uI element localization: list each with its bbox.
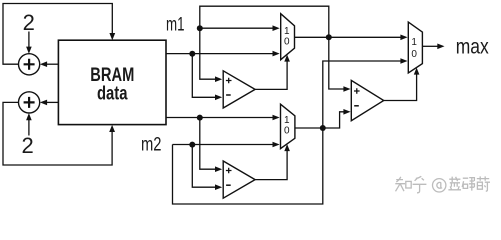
wire: mux1 output node down to comparator CMP3 + input [329, 37, 344, 89]
wire: BRAM lower word down to comparator CMP2 + input [200, 118, 216, 170]
svg-text:2: 2 [23, 10, 35, 35]
wire: m2 down to comparator CMP2 - input [192, 145, 215, 188]
arrowhead into MUX1 select [284, 55, 290, 62]
arrowhead into adder A2 right [40, 100, 47, 106]
BRAM data block U1 [58, 40, 166, 124]
wire: BRAM left edge to adder A1 input [47, 63, 59, 65]
wire: m2 bottom bypass (down, across, up to mux2 output node) [173, 128, 323, 204]
arrowhead into CMP2 + input [215, 166, 222, 172]
arrowhead into MUX1 input 0 [273, 51, 280, 57]
svg-text:0: 0 [411, 49, 417, 60]
wire: m2 to MUX2 input 0 [173, 144, 273, 146]
wire: MUX1 output to final MUX input 1 [295, 36, 401, 38]
svg-text:m1: m1 [166, 14, 185, 35]
arrowhead into CMP2 - input [215, 184, 222, 190]
arrowhead output max [437, 44, 444, 50]
svg-text:data: data [97, 83, 128, 104]
wire: CMP3 output to final MUX select [384, 74, 417, 101]
node: mux2 output junction [320, 125, 326, 131]
adder A2 [19, 92, 40, 113]
node: BRAM lower word junction [197, 115, 203, 121]
node: BRAM upper word junction [189, 51, 195, 57]
arrowhead into BRAM bottom [109, 125, 115, 132]
wire: MUX2 output to comparator CMP3 - input (step route) [295, 112, 344, 128]
svg-text:1: 1 [411, 37, 417, 48]
wire: adder A2 output feedback loop to BRAM address bottom [3, 102, 112, 165]
wire: constant 2 into adder A2 [28, 120, 30, 136]
wire: BRAM left edge to adder A2 input [47, 101, 59, 103]
arrowhead into CMP1 + input [215, 76, 222, 82]
wire: m1 down to comparator CMP1 + input [200, 28, 216, 79]
arrowhead into MUX2 input 0 [273, 142, 280, 148]
arrowhead into adder A2 bottom [26, 113, 32, 120]
wire: final MUX output [422, 45, 437, 47]
wire: BRAM upper word output to MUX1 input 0 [166, 53, 273, 55]
svg-text:max: max [456, 35, 489, 58]
adder A1 [19, 54, 40, 75]
node: m1 junction [197, 25, 203, 31]
svg-text:0: 0 [284, 126, 290, 137]
arrowhead into BRAM top [109, 33, 115, 40]
arrowhead into final MUX input 0 [400, 58, 407, 64]
arrowhead into CMP3 - input [343, 109, 350, 115]
node: mux1 output junction [326, 34, 332, 40]
wire: m1 net top bypass (up, over, down to mux1 output node) [200, 6, 329, 37]
wire: CMP1 output to MUX1 select [255, 61, 287, 90]
svg-text:m2: m2 [141, 135, 162, 156]
arrowhead into adder A1 right [40, 61, 47, 67]
node: m2 junction [189, 142, 195, 148]
arrowhead into MUX2 select [284, 144, 290, 151]
arrowhead into adder A1 top [26, 47, 32, 54]
arrowhead into final MUX input 1 [400, 35, 407, 41]
svg-text:1: 1 [284, 26, 290, 37]
wire: constant 2 into adder A1 [28, 32, 30, 48]
watermark: 知乎 @... (grey) [395, 176, 490, 193]
wire: mux2 output node up to final MUX input 0 [323, 61, 401, 128]
arrowhead into final MUX select [414, 68, 420, 75]
mux MUX3 (final) [408, 22, 422, 73]
wire: CMP2 output to MUX2 select [255, 150, 287, 179]
comparator CMP3 (stage 2) [351, 80, 383, 120]
arrowhead into CMP1 - input [215, 95, 222, 101]
arrowhead into CMP3 + input [343, 86, 350, 92]
comparator CMP1 [223, 71, 255, 108]
wire: m1 to MUX1 input 1 [200, 27, 273, 29]
wire: BRAM upper word down to comparator CMP1 - input [192, 54, 215, 98]
svg-text:2: 2 [21, 133, 33, 158]
arrowhead into MUX1 input 1 [273, 25, 280, 31]
svg-text:0: 0 [284, 36, 290, 47]
wire: adder A1 output feedback loop to BRAM address top [3, 4, 112, 65]
comparator CMP2 [223, 161, 255, 198]
svg-text:1: 1 [284, 115, 290, 126]
mux MUX2 [281, 104, 295, 148]
arrowhead into MUX2 input 1 [273, 115, 280, 121]
wire: BRAM lower word output to MUX2 input 1 [166, 117, 273, 119]
mux MUX1 [281, 14, 295, 60]
